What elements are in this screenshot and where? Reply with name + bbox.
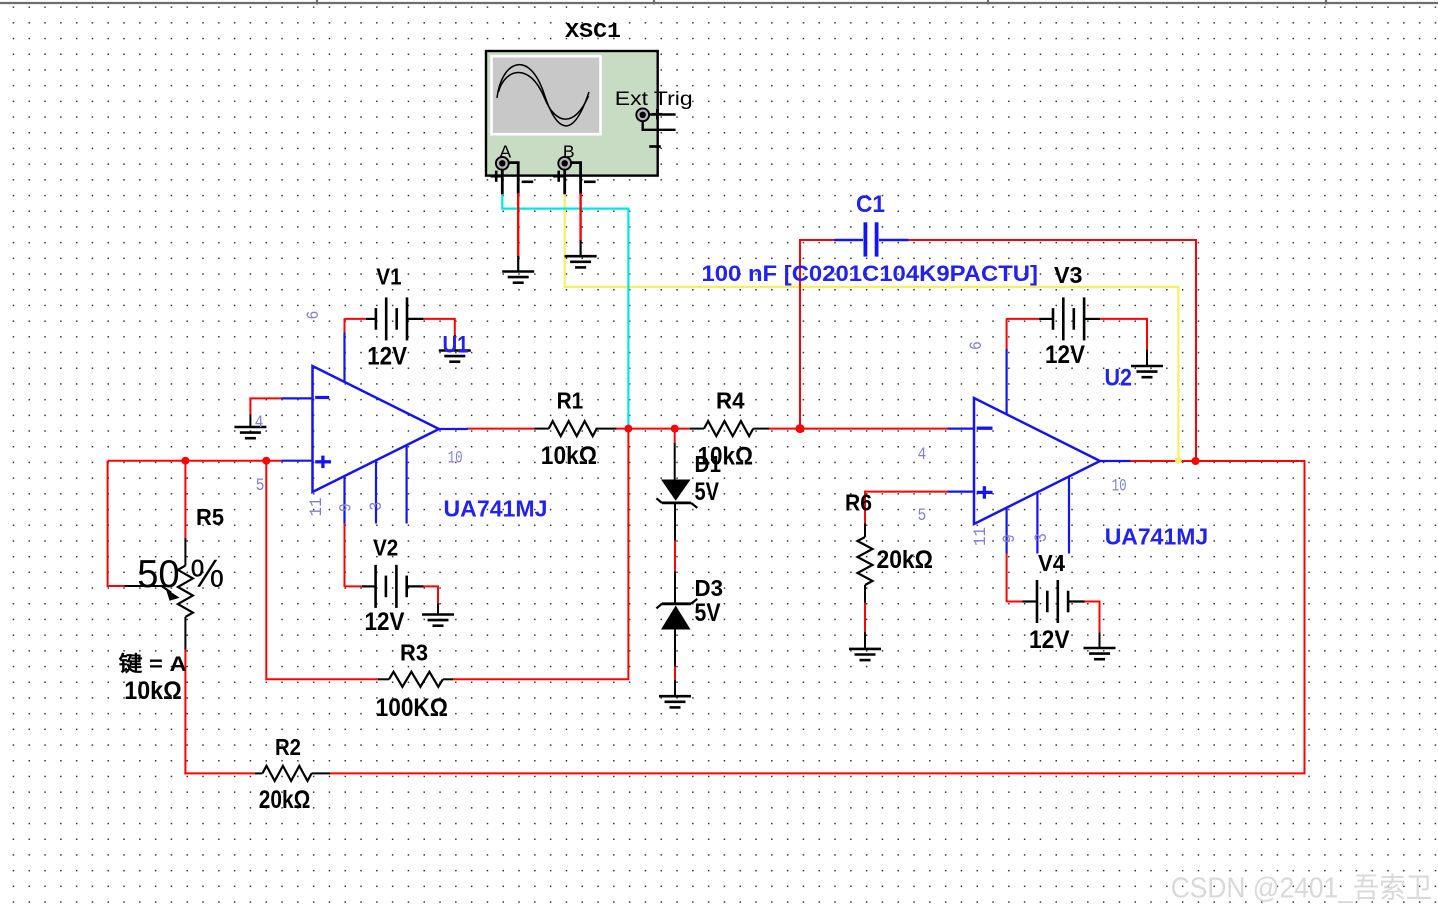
wire bottom rail right (R2 to U2 output) [330, 461, 1305, 773]
svg-text:5: 5 [918, 506, 927, 526]
junction yellow at U2 output [1175, 457, 1182, 464]
op-amp U1 plus sign [315, 460, 331, 463]
terminal A [496, 157, 509, 170]
zener diode D1 [661, 480, 691, 501]
minus terminal B [584, 181, 596, 184]
svg-text:UA741MJ: UA741MJ [1105, 524, 1209, 550]
op-amp U1 pin3 stub [375, 460, 377, 523]
minus terminal A [522, 181, 534, 184]
ground R6 [849, 648, 881, 651]
ground V3 [1131, 365, 1163, 368]
svg-text:3: 3 [367, 502, 387, 511]
svg-text:5V: 5V [695, 599, 721, 627]
junction node F (U2 output) [1192, 457, 1200, 465]
wire between diodes black parts [674, 443, 676, 480]
svg-text:R3: R3 [400, 640, 428, 666]
wire scope A + lead [501, 170, 504, 195]
battery V3 [1039, 318, 1053, 320]
junction node A (R5 top / +input) [181, 457, 189, 465]
wire U1 pin9 to V2 [344, 523, 346, 587]
ground below D3 [659, 695, 691, 698]
svg-text:100 nF [C0201C104K9PACTU]: 100 nF [C0201C104K9PACTU] [702, 261, 1039, 286]
wire between D1 and D3 (red part) [674, 540, 676, 573]
op-amp U2 pin3 stub [1036, 493, 1038, 554]
svg-text:R2: R2 [275, 734, 301, 760]
ground V4 [1084, 647, 1116, 650]
wire R6 bottom [864, 602, 866, 634]
potentiometer R5 [184, 538, 186, 565]
svg-text:10: 10 [1112, 477, 1127, 497]
svg-text:9: 9 [1000, 534, 1020, 543]
wire +input net U1 horizontal [108, 460, 282, 462]
ground scope A [502, 270, 534, 273]
wire scope B - red part [579, 193, 581, 241]
op-amp U2 -input stub [948, 428, 975, 430]
sheet border top line [0, 2, 1438, 4]
wire R3 right to node C [453, 429, 629, 680]
wire U2 pin6 red part [1006, 318, 1008, 349]
op-amp U2 spare pin stub [1068, 477, 1070, 554]
junction node C (R1 right / feedback) [624, 425, 632, 433]
svg-text:D1: D1 [695, 451, 722, 477]
svg-text:键 = A: 键 = A [119, 652, 187, 676]
wire scope B+ to U2 output (yellow) [565, 193, 1179, 460]
wire V3 left lead red [1007, 318, 1040, 320]
wire pot arm black [125, 585, 166, 587]
wire C1 right to U2 output loop [909, 240, 1196, 461]
sheet zone tick 2 [653, 0, 655, 5]
svg-text:C1: C1 [856, 191, 885, 218]
svg-text:Ext Trig: Ext Trig [615, 88, 693, 110]
oscilloscope screen [492, 56, 601, 134]
wire U1 pin6 red part [344, 318, 346, 333]
wire R6 black to ground [864, 632, 866, 649]
junction node D (zener branch) [671, 425, 679, 433]
zener diode D3 [661, 606, 691, 630]
battery V1 [366, 318, 376, 320]
op-amp U2 pin6 stub [1005, 349, 1007, 415]
wire V2 left lead red [345, 585, 367, 587]
svg-text:12V: 12V [367, 343, 407, 371]
svg-text:12V: 12V [365, 608, 405, 636]
op-amp U2 triangle [974, 398, 1100, 524]
wire V1 ground stub [454, 335, 456, 351]
wire Ext Trig + stub [650, 113, 676, 115]
potentiometer R5 wiper arrow [161, 586, 171, 593]
oscilloscope XSC1 body [486, 51, 658, 176]
wire V3 ground stub [1146, 350, 1148, 366]
svg-text:V3: V3 [1054, 262, 1083, 288]
svg-text:V4: V4 [1038, 550, 1065, 576]
wire R5 bottom to bottom rail [184, 649, 186, 775]
op-amp U1 pin9 stub [343, 476, 345, 524]
svg-text:XSC1: XSC1 [565, 21, 621, 44]
svg-text:50 %: 50 % [137, 553, 224, 596]
svg-text:3: 3 [1032, 533, 1052, 542]
svg-text:6: 6 [967, 341, 987, 350]
plus terminal B [553, 175, 564, 178]
op-amp U1 +input stub [282, 460, 314, 462]
op-amp U1 minus sign [315, 396, 329, 399]
wire bottom rail left (to R2) [184, 772, 255, 774]
wire V2 right to ground [423, 586, 438, 604]
resistor R1 [535, 428, 549, 430]
wire below D3 (red part) [674, 666, 676, 681]
svg-text:5V: 5V [695, 478, 720, 506]
svg-text:U2: U2 [1105, 365, 1133, 392]
svg-text:R5: R5 [196, 504, 224, 530]
wire node E up to C1 left [800, 240, 834, 429]
battery V2 [362, 585, 376, 587]
svg-text:D3: D3 [695, 575, 724, 601]
op-amp U1 pin6 stub [343, 333, 345, 384]
ground scope B [565, 255, 597, 258]
op-amp U1 triangle [313, 366, 440, 492]
wire V1 left lead red [345, 318, 367, 320]
wire left branch to potentiometer wiper [108, 461, 126, 586]
wire V4 ground stub [1099, 633, 1101, 649]
sheet zone tick 3 [987, 0, 989, 5]
resistor R6 [864, 524, 866, 538]
svg-text:11: 11 [307, 498, 327, 517]
minus Ext Trig [649, 145, 661, 148]
resistor R3 [378, 678, 389, 680]
wire U1 pin4 ground stub [249, 415, 251, 428]
wire R4 right to U2 -input [769, 428, 948, 430]
svg-text:UA741MJ: UA741MJ [444, 496, 548, 522]
svg-text:A: A [500, 142, 512, 162]
op-amp U1 -input stub [282, 397, 314, 399]
svg-text:R4: R4 [716, 388, 745, 414]
svg-text:B: B [563, 142, 575, 162]
svg-text:10: 10 [448, 448, 463, 468]
svg-text:5: 5 [256, 476, 265, 496]
ground U1 pin4 [234, 426, 266, 429]
ground V1 [439, 349, 471, 352]
wire U2 output red [1131, 460, 1197, 462]
op-amp U2 minus sign [977, 427, 993, 430]
resistor R4 [690, 428, 704, 430]
wire U1 pin4 to ground [250, 398, 281, 415]
wire scope B - lead [571, 163, 580, 195]
svg-text:CSDN @2401_吾索卫: CSDN @2401_吾索卫 [1171, 873, 1432, 905]
terminal B [558, 157, 571, 170]
op-amp U2 pin9 stub [1005, 508, 1007, 554]
oscilloscope trace 2 [499, 72, 589, 119]
op-amp U2 plus sign [977, 491, 993, 494]
wire V1 right to ground [423, 319, 455, 336]
wire scope A - red part [517, 193, 519, 257]
wire U1 output to R1 [467, 428, 535, 430]
wire scope B - black to ground [579, 240, 581, 256]
svg-text:10kΩ: 10kΩ [124, 677, 182, 705]
svg-text:11: 11 [971, 527, 991, 546]
wire R6 top vertical [864, 491, 866, 525]
junction node E (C1 branch) [796, 424, 805, 433]
svg-text:20kΩ: 20kΩ [877, 546, 934, 574]
svg-text:R6: R6 [845, 489, 872, 515]
wire V3 right to ground [1100, 319, 1148, 351]
wire scope B + lead [563, 170, 566, 195]
wire U2 pin9 to V4 [1006, 553, 1008, 602]
oscilloscope trace 1 [497, 65, 589, 126]
wire V4 left lead red [1007, 601, 1029, 603]
wire R6 top to U2 +input [865, 491, 948, 493]
op-amp U1 output stub [438, 428, 468, 430]
svg-text:6: 6 [304, 311, 324, 320]
wire scope A+ to node R1-right (cyan) [502, 193, 628, 427]
wire R1 right / node C to node D [615, 428, 690, 430]
wire to R3 left [266, 678, 378, 680]
wire scope A - lead [509, 163, 519, 195]
op-amp U2 +input stub [948, 491, 975, 493]
svg-text:V1: V1 [376, 264, 401, 290]
svg-text:4: 4 [255, 413, 264, 433]
sheet zone tick 1 [316, 0, 318, 5]
svg-text:100KΩ: 100KΩ [376, 694, 448, 722]
svg-text:4: 4 [918, 445, 927, 465]
svg-text:12V: 12V [1029, 626, 1070, 654]
capacitor C1 [834, 239, 863, 241]
plus terminal A [491, 175, 502, 178]
svg-text:R1: R1 [557, 388, 584, 414]
svg-text:10kΩ: 10kΩ [541, 442, 597, 470]
wire V4 right to ground [1083, 602, 1099, 634]
svg-text:9: 9 [337, 503, 357, 512]
op-amp U2 output stub [1099, 460, 1131, 462]
wire zener top (node D to D1) [674, 429, 676, 445]
ground V2 [422, 613, 454, 616]
plus terminal Ext Trig [652, 113, 662, 116]
op-amp U1 spare pin stub [406, 445, 408, 523]
junction node B (R3 branch) [262, 457, 270, 465]
sheet zone tick 4 [1325, 0, 1327, 5]
wire R5 top [184, 461, 186, 539]
svg-text:U1: U1 [443, 332, 469, 359]
wire V2 ground stub [437, 604, 439, 615]
terminal Ext Trig [636, 108, 649, 121]
svg-text:V2: V2 [373, 535, 398, 561]
svg-text:12V: 12V [1045, 341, 1085, 369]
resistor R2 [255, 772, 262, 774]
wire scope A - black to ground [517, 256, 519, 271]
battery V4 [1022, 600, 1037, 602]
wire Ext Trig - stub [643, 121, 676, 130]
wire node B to R3 vertical [265, 461, 267, 681]
svg-text:20kΩ: 20kΩ [259, 786, 311, 814]
